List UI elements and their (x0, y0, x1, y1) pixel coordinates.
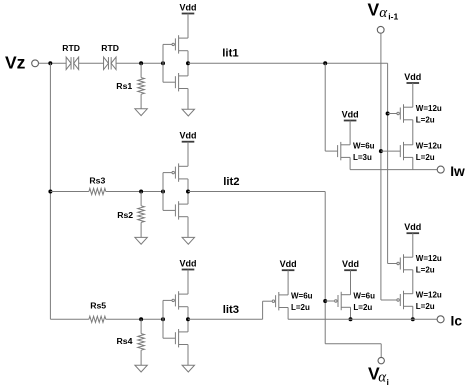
resistor Rs1 (zigzag) (138, 78, 145, 95)
wire inverter1 NMOS gate lead (163, 81, 175, 83)
transistor M1 PMOS inverter1 (172, 35, 188, 53)
resistor Rs4 (zigzag) (138, 334, 145, 351)
wire node to Rs4 (140, 319, 142, 333)
resistor Rs5 (zigzag) (89, 316, 106, 322)
svg-text:Rs3: Rs3 (89, 175, 105, 185)
wire inverter1 PMOS gate lead (163, 43, 172, 45)
junction Rs1 tap (139, 61, 143, 65)
wire Rs3 to inverter2 input (106, 191, 163, 193)
wire M2 source to ground (187, 89, 189, 110)
ground Rs2 ground (135, 237, 147, 244)
svg-text:Vdd: Vdd (180, 258, 197, 268)
node label V alpha i (368, 364, 389, 387)
svg-text:V: V (368, 0, 380, 20)
svg-text:Vdd: Vdd (180, 131, 197, 141)
wire Vdd to M10 drain (287, 270, 289, 295)
resistor Rs3 (zigzag) (89, 188, 106, 194)
wire M11 source to Ic line (350, 307, 352, 319)
power symbol Vdd inverter3 (180, 258, 197, 269)
junction inverter1 gate node (161, 61, 165, 65)
junction inverter2 output node (186, 190, 190, 194)
junction inverter3 gate node (161, 317, 165, 321)
node label V alpha i-1 (368, 0, 399, 21)
junction bus row2 (48, 190, 52, 194)
wire M9 source to Iw line (412, 157, 414, 169)
terminal Vz (32, 60, 39, 67)
svg-text:L=2u: L=2u (353, 303, 372, 312)
RTD diode RTD 1 (66, 57, 79, 69)
wire M7 source to Iw line (349, 157, 351, 169)
terminal V alpha i (378, 357, 384, 363)
transistor M8 PMOS W=12u (397, 104, 413, 122)
junction inverter2 gate node (161, 190, 165, 194)
transistor M7 W=6u L=3u (338, 142, 351, 160)
junction lit1 branch (323, 61, 327, 65)
wire RTD1 to RTD2 (79, 62, 104, 64)
transistor M13 PMOS W=12u (397, 291, 413, 309)
power symbol Vdd inverter1 (180, 2, 197, 13)
transistor M6 NMOS inverter3 (175, 329, 188, 347)
wire RTD2 to inverter1 input (116, 62, 163, 64)
wire Vdd to M11 drain (350, 270, 352, 295)
wire Vdd to M7 drain (349, 121, 351, 145)
junction lit2 branch to M11 gate (323, 299, 327, 303)
wire inverter2 gate bus (162, 173, 164, 211)
wire inverter3 gate bus (162, 300, 164, 338)
power symbol Vdd M7 (342, 109, 359, 120)
terminal Ic (437, 316, 444, 323)
svg-text:i-1: i-1 (388, 11, 398, 21)
svg-text:W=12u: W=12u (416, 254, 442, 263)
junction inverter3 output node (186, 317, 190, 321)
svg-text:W=6u: W=6u (291, 292, 313, 301)
wire Vdd to M12 drain (412, 233, 414, 257)
wire rail A to M13 gate (381, 299, 397, 301)
svg-text:i: i (387, 377, 389, 387)
junction Rs2 tap (139, 190, 143, 194)
junction Rs4 tap (139, 317, 143, 321)
svg-text:Ic: Ic (451, 313, 463, 328)
ground inverter2 (182, 237, 194, 244)
svg-text:RTD: RTD (62, 43, 80, 53)
svg-text:α: α (379, 5, 388, 21)
wire lit2 branch down (324, 192, 326, 344)
wire inverter3 output vertical (187, 307, 189, 332)
wire inverter1 output vertical (187, 51, 189, 76)
wire Vz to RTD1 (39, 62, 67, 64)
wire Rs1 to ground (140, 94, 142, 109)
transistor M2 NMOS inverter1 (175, 73, 188, 91)
wire rail lit1 down (387, 63, 389, 263)
wire Iw line (350, 169, 437, 171)
power symbol Vdd M12 M13 (404, 222, 421, 233)
wire M8 source to M9 drain (412, 120, 414, 145)
transistor M11 PMOS W=6u (335, 292, 351, 310)
transistor M10 PMOS W=6u (272, 292, 288, 310)
wire to V alpha i (325, 343, 381, 345)
terminal Iw (437, 166, 444, 173)
wire Vdd to M8 drain (412, 83, 414, 107)
wire lit1 (188, 62, 388, 64)
wire inverter3 PMOS gate lead (163, 299, 172, 301)
transistor M5 PMOS inverter3 (172, 291, 188, 309)
svg-text:Vdd: Vdd (280, 259, 297, 269)
svg-text:RTD: RTD (101, 43, 119, 53)
svg-text:L=2u: L=2u (416, 116, 435, 125)
power symbol Vdd M10 (280, 259, 297, 270)
svg-text:W=12u: W=12u (416, 104, 442, 113)
svg-text:W=12u: W=12u (416, 290, 442, 299)
svg-text:lit1: lit1 (222, 48, 238, 60)
wire lit3 up (262, 301, 264, 319)
wire Rs4 to ground (140, 350, 142, 365)
svg-text:W=6u: W=6u (353, 141, 375, 150)
svg-text:L=2u: L=2u (416, 302, 435, 311)
wire M9 gate lead (381, 150, 400, 152)
wire M10 source to Ic line (287, 308, 289, 320)
wire M8 gate lead (388, 113, 397, 115)
wire inverter2 PMOS gate lead (163, 172, 172, 174)
wire M7 gate lead (325, 150, 337, 152)
wire inverter2 output vertical (187, 179, 189, 204)
wire inverter3 NMOS gate lead (163, 337, 175, 339)
junction rail B to M8 gate (386, 112, 390, 116)
svg-text:W=12u: W=12u (416, 141, 442, 150)
svg-text:Vdd: Vdd (342, 259, 359, 269)
transistor M4 NMOS inverter2 (175, 201, 188, 219)
svg-text:Rs4: Rs4 (117, 336, 133, 346)
wire lit2 (188, 191, 325, 193)
wire rail B to M12 gate (388, 263, 397, 265)
power symbol Vdd inverter2 (180, 131, 197, 142)
svg-text:L=2u: L=2u (291, 303, 310, 312)
svg-text:lit3: lit3 (223, 304, 239, 316)
power symbol Vdd M11 (342, 259, 359, 270)
junction rail A to M9 gate (379, 149, 383, 153)
wire V alpha i stub (380, 344, 382, 358)
wire Rs2 to ground (140, 222, 142, 237)
svg-text:Rs1: Rs1 (116, 81, 132, 91)
resistor Rs2 (zigzag) (138, 206, 145, 223)
ground inverter1 (182, 109, 194, 116)
wire Vdd3 to M5 drain (187, 270, 189, 295)
wire node to Rs2 (140, 192, 142, 206)
svg-text:lit2: lit2 (223, 176, 239, 188)
junction Vz node (48, 61, 52, 65)
power symbol Vdd M8 (404, 72, 421, 83)
svg-text:Vz: Vz (5, 52, 26, 72)
transistor M12 PMOS W=12u (397, 254, 413, 272)
svg-text:Rs5: Rs5 (90, 300, 106, 310)
wire node to Rs1 (140, 63, 142, 77)
terminal V alpha i-1 (377, 26, 384, 33)
svg-text:L=3u: L=3u (353, 153, 372, 162)
ground inverter3 (182, 365, 194, 372)
wire M4 source to ground (187, 217, 189, 238)
wire rail V alpha i-1 (380, 33, 382, 300)
wire M10 gate lead (263, 300, 272, 302)
transistor M3 PMOS inverter2 (172, 163, 188, 181)
ground Rs4 ground (135, 365, 147, 372)
svg-text:Rs2: Rs2 (117, 210, 133, 220)
ground Rs1 ground (135, 109, 147, 116)
wire bus to Rs3 (50, 191, 89, 193)
wire Vdd1 to M1 drain (187, 14, 189, 39)
svg-text:W=6u: W=6u (353, 291, 375, 300)
svg-text:L=2u: L=2u (416, 153, 435, 162)
junction M11 source on Ic line (349, 317, 353, 321)
wire M11 gate lead (325, 300, 334, 302)
wire inverter1 gate bus (162, 44, 164, 82)
svg-text:Vdd: Vdd (342, 109, 359, 119)
wire inverter2 NMOS gate lead (163, 209, 175, 211)
svg-text:L=2u: L=2u (416, 265, 435, 274)
svg-text:Vdd: Vdd (404, 72, 421, 82)
wire vertical input bus (49, 63, 51, 319)
wire M6 source to ground (187, 345, 189, 366)
wire Ic line (288, 318, 437, 320)
wire lit3 (188, 318, 263, 320)
wire bus to Rs5 (50, 318, 89, 320)
svg-text:Vdd: Vdd (404, 222, 421, 232)
wire M12 source to M13 drain (412, 270, 414, 294)
junction M13 source on Ic line (411, 317, 415, 321)
transistor M9 NMOS W=12u (400, 142, 413, 160)
RTD diode RTD 2 (104, 57, 117, 69)
svg-text:Iw: Iw (450, 164, 465, 179)
junction inverter1 output node (186, 61, 190, 65)
wire lit1 branch down (324, 63, 326, 151)
wire Vdd2 to M3 drain (187, 142, 189, 167)
wire Rs5 to inverter3 input (106, 318, 163, 320)
svg-text:Vdd: Vdd (180, 2, 197, 12)
wire M13 source to Ic line (412, 306, 414, 319)
